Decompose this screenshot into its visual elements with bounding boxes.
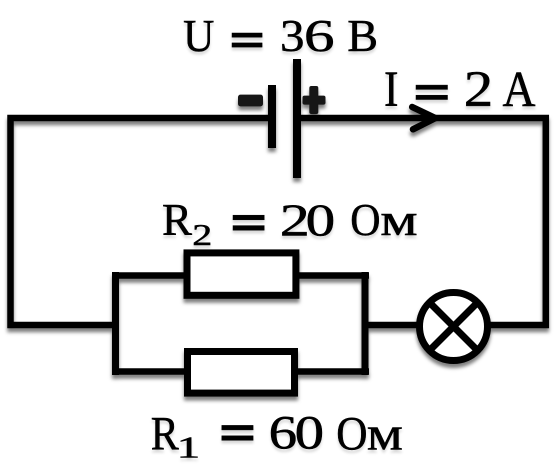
svg-text:R: R: [162, 194, 192, 245]
svg-text:В: В: [347, 10, 378, 61]
svg-text:2: 2: [192, 218, 212, 252]
svg-text:A: A: [503, 62, 536, 118]
svg-text:I: I: [384, 62, 399, 118]
svg-text:0: 0: [295, 408, 325, 460]
svg-text:1: 1: [177, 431, 201, 465]
svg-text:О: О: [350, 194, 380, 245]
svg-text:О: О: [336, 408, 367, 460]
svg-text:6: 6: [304, 10, 335, 61]
svg-text:2: 2: [464, 62, 494, 118]
svg-text:м: м: [367, 408, 403, 460]
svg-text:R: R: [151, 408, 179, 460]
svg-text:м: м: [380, 194, 417, 245]
svg-text:6: 6: [269, 408, 298, 460]
svg-text:3: 3: [280, 10, 305, 61]
svg-text:U: U: [183, 10, 214, 61]
svg-text:0: 0: [306, 195, 336, 246]
